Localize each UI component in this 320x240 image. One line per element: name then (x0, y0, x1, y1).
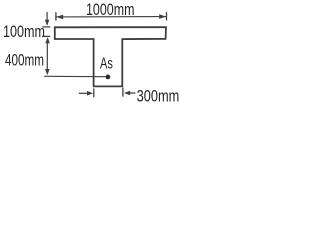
svg-text:300mm: 300mm (137, 87, 180, 103)
lower arrow pointing up to flange bottom (42, 35, 50, 37)
right extension tick (166, 12, 168, 20)
left extension tick (55, 12, 57, 20)
rebar dot (As) (106, 75, 111, 80)
right side line with left-pointing arrow (124, 91, 130, 96)
left arrowhead (56, 15, 63, 20)
svg-text:As: As (100, 56, 113, 73)
upper arrow pointing down to flange top (46, 12, 48, 25)
dimension line 1000mm (top) (56, 12, 167, 20)
left tick (93, 88, 95, 97)
leader line to rebar (44, 75, 105, 77)
dimension 400mm (vertical line down to As level with arrow) (45, 42, 50, 76)
short bar at flange-top level (42, 26, 50, 28)
T-beam cross-section outline (55, 27, 166, 86)
right arrowhead (159, 14, 166, 19)
dimension 100mm (flange thickness, arrows outside) (42, 12, 50, 43)
dimension 300mm (web width, arrows outside) (79, 88, 136, 98)
left side line with right-pointing arrow (79, 92, 88, 94)
svg-text:400mm: 400mm (5, 50, 44, 69)
svg-text:1000mm: 1000mm (86, 0, 135, 19)
svg-text:100mm: 100mm (3, 22, 45, 41)
right tick (122, 88, 124, 97)
